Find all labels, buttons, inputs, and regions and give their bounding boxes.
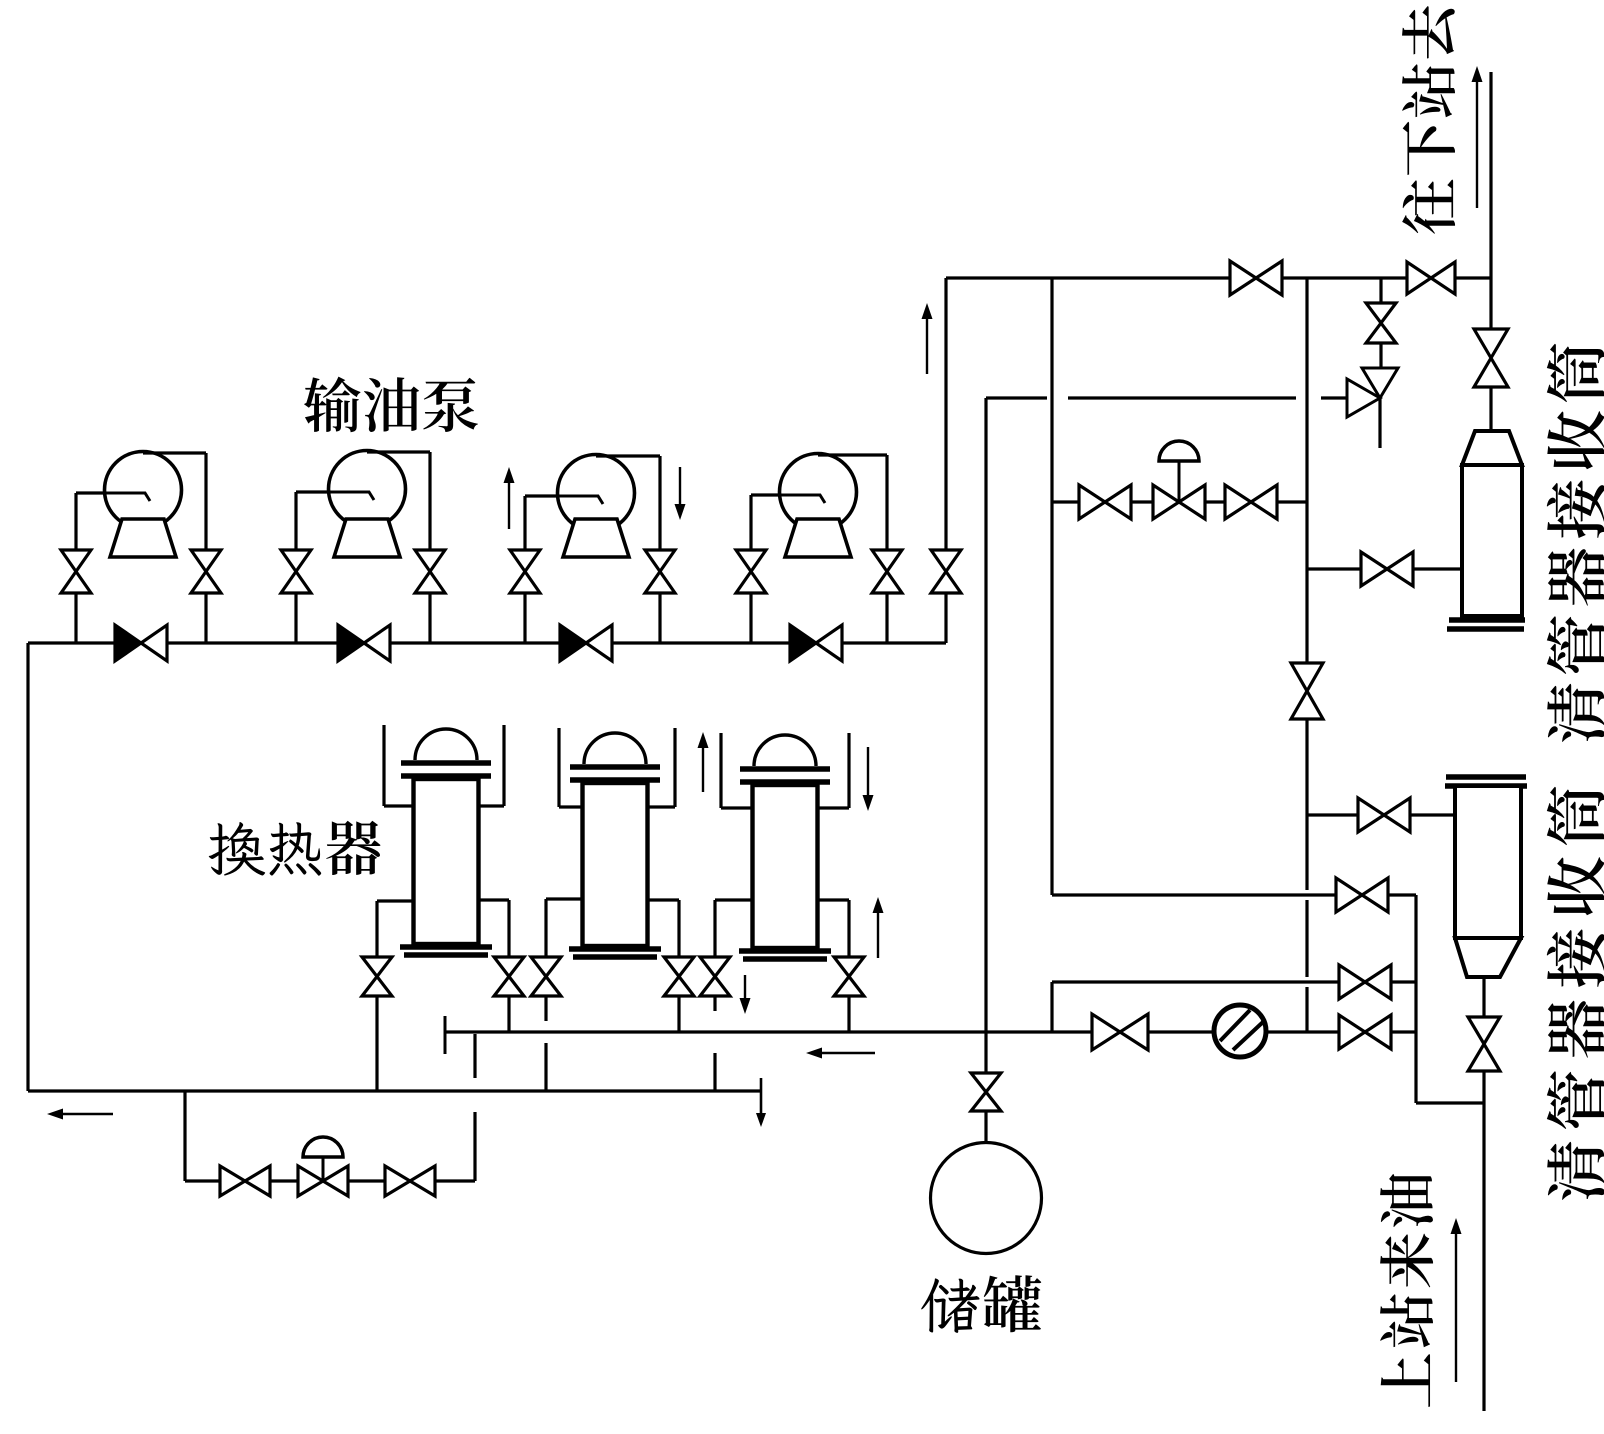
pipe vent stub from top line [1379,278,1382,303]
pipe E2 right drop to line A [677,996,680,1032]
gate valve control branch left [1079,485,1131,519]
heat exchanger E3 shell [753,785,818,948]
pipe left return riser [26,643,29,1091]
gate valve line A right [1339,1015,1391,1049]
arrow flow left (line A) [822,1052,875,1054]
pipe crossover at y=895 [1052,893,1416,896]
pipe vertical from top line (x=1052) [1050,278,1053,895]
pipe pump P4 discharge to header [885,593,888,643]
pipe E2 left drop to line B [544,996,547,1021]
pipe E1 lower-right nozzle [479,898,510,901]
arrow line B end marker [760,1078,763,1113]
pump P1 (centrifugal pump circle with base) [105,452,182,558]
pipe pump P3 discharge to header [658,593,661,643]
arrow flow up (E3 bottom right) [877,913,879,958]
pipe incoming pipeline from previous station [1482,1071,1485,1411]
pipe pump P2 suction to header [294,593,297,643]
heat exchanger E1 bottom flange bars [400,944,492,950]
pipe pump P4 suction [751,493,780,496]
pipe main pump header [28,641,946,644]
check valve header CV1 [115,625,141,661]
pipe pump P2 discharge [367,450,430,453]
pipe E3 lower-right nozzle [818,898,850,901]
title label 输油泵 (oil transfer pumps) [304,377,478,433]
pipe E3 left drop to line B [713,996,716,1011]
gate valve pump P3 suction [510,550,540,593]
arrow flow down (E3 bottom) [744,975,746,998]
control valve bypass with actuator [298,1166,348,1196]
gate valve pump P2 suction [281,550,311,593]
pipe E2 lower-left nozzle [546,897,583,900]
gate valve line A [1092,1014,1148,1050]
gate valve receiver-1 nozzle [1361,552,1413,586]
gate valve E2 lower-left [531,957,561,996]
heat exchanger E1 shell [414,779,479,944]
pipe tank suction header (line A) [445,1030,1416,1033]
gate valve pump P3 discharge [645,550,675,593]
gate valve E1 lower-left [362,957,392,996]
pipe E2 upper-left hood [557,728,560,807]
gate valve E1 lower-right [494,957,524,996]
gate valve receiver-2 nozzle [1358,798,1410,832]
heat exchanger E1 top flange bars [401,760,491,766]
gate valve discharge riser [931,550,961,593]
gate valve pump P1 suction [61,550,91,593]
check valve header CV3 [560,625,586,661]
gate valve pump P1 discharge [191,550,221,593]
gate valve incoming line [1468,1017,1500,1071]
gate valve E3 lower-right [834,957,864,996]
heat exchanger E3 bottom flange bars [739,948,831,954]
arrow flow down (pump3 discharge) [679,467,681,504]
gate valve outlet header V1 [1230,261,1282,295]
pipe tank riser / blend line y=398 [986,396,1047,399]
pipe E1 right drop to line A [507,996,510,1032]
pipe control-valve branch y=502 [1052,500,1307,503]
pipe pump P3 suction [525,494,558,497]
gate valve control branch right [1225,485,1277,519]
gate valve pump P4 discharge [872,550,902,593]
label 清管器接收筒 upper [1547,344,1604,742]
pipe E1 upper-left hood [382,725,385,806]
pig receiver 1 base flange bars [1449,617,1525,623]
arrow flow left (line B) [63,1113,113,1115]
gate valve outlet header V2 [1407,262,1455,294]
heat exchanger E2 bottom flange bars [569,946,661,952]
pump P4 (centrifugal pump circle with base) [780,454,857,558]
arrow flow up (riser) [926,319,928,374]
pig receiver vessel 2 top flange bars [1446,774,1526,780]
pipe pump P2 suction [296,490,329,493]
capped end line A [444,1016,447,1054]
pipe E3 right drop to line A [847,996,850,1032]
check valve header CV4 [790,625,816,661]
heat exchanger E2 top flange bars [570,764,660,770]
arrow flow down (right of E3) [867,747,869,795]
pipe receiver-1 top connection [1489,278,1492,329]
label 储罐 [921,1275,1041,1333]
pipe bypass return riser [473,1112,476,1181]
gate valve manifold vertical [1291,663,1323,719]
pipe E1 left drop to line B [375,996,378,1091]
pipe outgoing pipeline to next station [1489,72,1492,278]
pump P2 (centrifugal pump circle with base) [329,451,406,558]
arrow flow up (pump3 suction) [508,483,510,529]
label 上站来油 (oil from upstream station) [1380,1174,1433,1407]
pipe pump P1 discharge to header [204,593,207,643]
pipe station outlet header (top line) [946,276,1490,279]
gate valve pump P2 discharge [415,550,445,593]
pipe receiver-1 nozzle line y=569 [1307,567,1462,570]
heat exchanger E2 dome head [584,733,646,764]
pipe receiver-2 nozzle line y=815 [1307,813,1455,816]
pipe pump P2 discharge to header [428,593,431,643]
pipe bypass to incoming line y=1103 [1416,1101,1484,1104]
heat exchanger E3 top flange bars [740,766,830,772]
storage tank 储罐 [931,1143,1042,1254]
gate valve receiver-1 top [1474,329,1508,387]
pipe pump P3 suction to header [523,593,526,643]
angle relief valve [1347,368,1398,417]
pump P3 (centrifugal pump circle with base) [558,455,635,558]
gate valve E2 lower-right [664,957,694,996]
gate valve bypass left [220,1166,270,1196]
pipe pressure-control bypass line [185,1179,475,1182]
pipe E2 lower-right nozzle [648,898,680,901]
pipe pump P1 suction to header [74,593,77,643]
arrow incoming flow up [1455,1234,1457,1382]
pipe pump P3 discharge [596,454,660,457]
pipe pump P4 discharge [818,453,887,456]
gate valve pump P4 suction [736,550,766,593]
pig receiver vessel 1 (清管器接收筒) [1462,431,1522,465]
pipe crossover at y=982 [1052,980,1416,983]
pig receiver vessel 2 (清管器接收筒) [1455,786,1521,938]
pipe E1 lower-left nozzle [377,899,414,902]
heat exchanger E2 shell [583,783,648,946]
pipe E3 upper-right hood [847,733,850,808]
gate valve E3 lower-left [700,957,730,996]
flow meter [1214,1005,1266,1057]
check valve header CV2 [338,625,364,661]
pipe E3 lower-left nozzle [715,898,753,901]
pipe receiver-2 bottom [1482,977,1485,1017]
heat exchanger E3 dome head [754,735,816,766]
pipe angle valve inlet [1321,396,1347,399]
gate valve vent stub [1366,303,1396,343]
label 换热器 (heat exchangers) [209,821,381,876]
pipe E2 upper-right hood [673,728,676,807]
arrow to next station [1476,82,1478,208]
pipe vertical x=1416 [1414,895,1417,1103]
gate valve tank riser [971,1073,1001,1111]
pipe angle valve drain stub [1378,398,1381,448]
pipe HX return header (line B) [28,1089,761,1092]
pipe E1 upper-right hood [502,725,505,806]
arrow flow up (between E2 E3) [702,748,704,792]
control valve with actuator (y=502) [1153,485,1205,519]
pipe vertical manifold (x=1307) [1305,278,1308,890]
pipe vertical x=1052 lower [1050,982,1053,1032]
pipe pump P1 suction [76,491,105,494]
pipe tank riser vertical [984,398,987,1032]
heat exchanger E1 dome head [415,729,477,760]
pipe pump P4 suction to header [749,593,752,643]
pipe discharge riser [944,593,947,643]
label 往下站去 (to next station) [1402,6,1455,234]
label 清管器接收筒 lower [1547,787,1604,1200]
gate valve crossover y=895 [1336,878,1388,912]
pipe E3 upper-left hood [719,733,722,808]
pipe pump P1 discharge [143,451,206,454]
gate valve bypass right [385,1166,435,1196]
pipe bypass drop x=185 [183,1091,186,1181]
gate valve crossover y=982 [1339,965,1391,999]
